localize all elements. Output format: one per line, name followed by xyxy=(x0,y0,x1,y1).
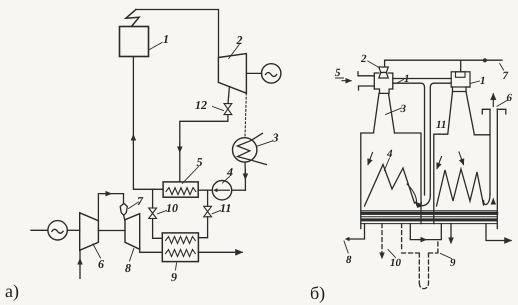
ash outlet 8 with left arrow xyxy=(349,224,365,239)
svg-text:4: 4 xyxy=(386,148,393,160)
svg-text:8: 8 xyxy=(125,261,131,275)
valve V10 branch xyxy=(152,189,154,208)
wire: HX9 outlet with right arrow xyxy=(198,251,242,253)
pump P4 internal arrow xyxy=(217,189,230,191)
label 1 (left) xyxy=(396,80,404,84)
svg-text:5: 5 xyxy=(197,155,203,169)
svg-text:9: 9 xyxy=(171,270,177,284)
label 2 xyxy=(368,61,379,68)
valve V11 xyxy=(204,206,212,217)
svg-text:10: 10 xyxy=(390,257,402,269)
boiler B1 xyxy=(120,27,149,57)
grate hatch rows xyxy=(362,212,497,215)
wire: turbine 8 exhaust to HX9 xyxy=(140,249,163,252)
generator G2 circle xyxy=(48,221,67,240)
svg-text:9: 9 xyxy=(450,257,456,269)
label 8 leader xyxy=(344,241,348,253)
flow arrow (right vessel, left) xyxy=(437,157,442,169)
label 8 xyxy=(130,249,134,262)
svg-text:6: 6 xyxy=(507,92,513,104)
svg-text:8: 8 xyxy=(346,254,352,266)
grate strip boundaries xyxy=(361,211,498,224)
label 2 xyxy=(229,45,240,59)
wire: compressor outlet loop to combustion chamber xyxy=(98,194,123,221)
svg-text:7: 7 xyxy=(137,194,144,208)
heat exchanger HX9 xyxy=(162,233,198,262)
wire: cooler to pump with down arrow xyxy=(244,162,246,173)
wire: pump to heat exchanger 5 xyxy=(198,189,212,191)
label 7 xyxy=(129,202,139,209)
hook up arrow xyxy=(492,199,494,204)
label 5 xyxy=(182,167,198,184)
outlet arrow 6 xyxy=(492,94,494,107)
dip pipe J-hook xyxy=(484,194,491,205)
pump P4 circle xyxy=(212,181,231,200)
flow arrow (left vessel) xyxy=(368,153,373,165)
generator G2 (left) lead xyxy=(31,229,48,231)
nozzle seat notch xyxy=(456,72,466,78)
feeder box 1 (right) xyxy=(451,72,470,87)
right wall / outlet pipe right line xyxy=(496,109,498,228)
right box throat xyxy=(451,87,470,92)
lightning break symbol on boiler outlet xyxy=(126,10,139,27)
turbine T2 xyxy=(218,54,246,94)
wire: extraction from turbine to valve 12 xyxy=(228,87,229,104)
wire: CC7 to turbine inlet xyxy=(123,215,126,219)
svg-text:5: 5 xyxy=(335,67,341,79)
nozzle 2 (hourglass) xyxy=(379,67,389,73)
label 1 xyxy=(150,43,163,50)
node junction dot xyxy=(483,58,487,62)
generator G2 tilde xyxy=(52,229,63,233)
HX9 upper coil xyxy=(166,237,196,244)
under-grate duct with right arrow xyxy=(410,224,441,240)
dashed loop seal xyxy=(402,224,438,289)
heat exchanger HX5 xyxy=(163,182,198,197)
svg-text:1: 1 xyxy=(163,32,169,46)
right outlet with right arrow xyxy=(486,224,511,241)
valve V12 xyxy=(224,104,232,115)
label 12 xyxy=(213,107,224,111)
turbine T8 xyxy=(125,214,140,250)
label 1 (right) xyxy=(471,81,480,84)
label 9 xyxy=(176,263,177,270)
svg-text:2: 2 xyxy=(236,33,243,47)
label 11 xyxy=(212,211,220,214)
label 9 leader xyxy=(441,254,452,259)
wire: top distribution line xyxy=(385,59,502,61)
dashed drain 10 with down arrow xyxy=(381,224,383,253)
HX9 lower coil xyxy=(166,250,196,257)
generator G1 circle xyxy=(262,64,281,83)
stub to right feeder box xyxy=(460,60,462,72)
label 6 xyxy=(93,244,101,258)
wire: HX5 to boiler riser with up arrow xyxy=(133,57,163,190)
valve V11 branch xyxy=(207,190,209,206)
svg-text:6: 6 xyxy=(98,257,104,271)
curl arrow (left vessel bottom) xyxy=(407,184,422,207)
feeder box 1 (left) xyxy=(374,73,393,89)
generator G1 (right) shaft xyxy=(246,72,261,74)
funnel 3 (left) xyxy=(374,93,395,133)
svg-text:3: 3 xyxy=(272,131,279,145)
svg-text:11: 11 xyxy=(436,119,446,131)
downcomer J-hook with arrow xyxy=(416,195,430,206)
bed coil (right vessel) xyxy=(437,169,484,206)
combustion chamber CC7 xyxy=(120,203,127,215)
funnel (right) xyxy=(448,92,474,134)
shaft compressor-turbine xyxy=(98,230,125,232)
label 4 xyxy=(223,177,230,184)
outlet mouth flanges xyxy=(482,109,506,114)
cooler C3 circle xyxy=(233,138,257,162)
stub to left nozzle xyxy=(384,60,386,67)
air intake with up arrow xyxy=(79,251,81,278)
gas outlet dip pipe xyxy=(489,109,491,194)
label 10 leader xyxy=(388,250,396,258)
wire: valve 12 to HX5 top with down arrow xyxy=(180,115,228,182)
shaft G2-compressor xyxy=(67,229,79,231)
cooler C3 coil xyxy=(237,133,266,164)
label 6 xyxy=(497,101,507,107)
right vessel walls xyxy=(434,134,490,223)
inlet pipe 5 with flanges xyxy=(358,72,374,90)
label 10 xyxy=(158,211,167,214)
crossover pipe (left box to right box) xyxy=(393,78,451,80)
svg-text:3: 3 xyxy=(400,103,407,115)
left vessel walls xyxy=(361,133,421,229)
label 3 xyxy=(258,141,273,146)
label 4 with leader xyxy=(384,158,389,171)
svg-text:10: 10 xyxy=(166,201,178,215)
generator G1 tilde xyxy=(266,73,277,77)
flow arrow (right vessel, mid) xyxy=(459,152,464,165)
svg-text:7: 7 xyxy=(503,70,509,82)
valve V10 xyxy=(149,208,157,219)
svg-text:a): a) xyxy=(5,281,19,301)
HX5 coil xyxy=(166,188,196,195)
label 7 xyxy=(500,64,504,71)
label 3 xyxy=(386,108,402,115)
wire: turbine exhaust to cooler (dotted) xyxy=(245,93,246,138)
svg-text:1: 1 xyxy=(480,75,486,87)
compressor K6 xyxy=(80,213,99,251)
svg-text:11: 11 xyxy=(220,201,231,215)
svg-text:4: 4 xyxy=(226,165,233,179)
svg-text:2: 2 xyxy=(360,53,367,65)
svg-text:12: 12 xyxy=(195,98,207,112)
wire: steam main from boiler to turbine (top) xyxy=(136,10,219,58)
svg-text:б): б) xyxy=(310,283,325,303)
bed coil (left vessel) xyxy=(365,165,415,207)
drain stub with down arrow xyxy=(450,224,452,240)
